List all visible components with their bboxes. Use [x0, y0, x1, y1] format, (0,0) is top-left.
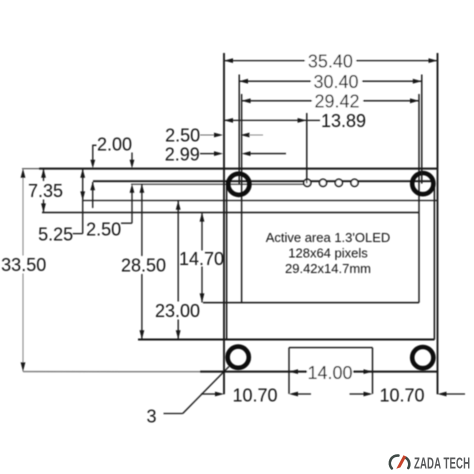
active area text	[266, 230, 391, 276]
active area rectangle	[42, 94, 419, 303]
dimension 5.25	[82, 169, 84, 234]
pin hole 2	[319, 179, 326, 186]
dimension 14.70	[201, 213, 203, 251]
inner frame line	[83, 200, 437, 202]
dimension 23.00	[177, 201, 179, 302]
svg-text:Active area 1.3'OLED: Active area 1.3'OLED	[266, 230, 391, 245]
svg-text:2.50: 2.50	[165, 126, 200, 146]
logo gauge icon	[390, 456, 409, 469]
dimension 28.50	[141, 184, 143, 256]
svg-text:ZADA TECH: ZADA TECH	[414, 454, 470, 472]
svg-text:14.00: 14.00	[307, 363, 352, 383]
svg-text:7.35: 7.35	[28, 181, 63, 201]
svg-text:33.50: 33.50	[1, 255, 46, 275]
svg-text:35.40: 35.40	[308, 51, 353, 71]
svg-text:23.00: 23.00	[155, 301, 200, 321]
mounting hole bottom-left	[228, 347, 249, 368]
mounting hole top-right	[412, 173, 433, 194]
svg-text:10.70: 10.70	[379, 385, 424, 405]
svg-text:2.50: 2.50	[86, 220, 121, 240]
bottom connector box	[289, 348, 373, 394]
svg-text:2.99: 2.99	[165, 144, 200, 164]
dimension 29.42	[242, 100, 419, 102]
2.00 lower arrow left (points up at glass top)	[90, 182, 95, 191]
glass display module rectangle	[93, 181, 435, 339]
pin hole 1	[304, 179, 311, 186]
pin hole 4	[351, 179, 358, 186]
dimension 13.89	[224, 119, 307, 121]
hole center extension right	[421, 75, 423, 184]
svg-text:13.89: 13.89	[321, 111, 366, 131]
svg-text:29.42x14.7mm: 29.42x14.7mm	[285, 261, 371, 276]
dimension 10.70 right	[350, 393, 365, 395]
pin centerline	[131, 183, 304, 185]
dimension 10.70 left	[201, 393, 215, 395]
svg-text:5.25: 5.25	[38, 224, 73, 244]
dimension 35.40	[224, 60, 438, 62]
board outline (PCB)	[22, 53, 438, 394]
svg-text:30.40: 30.40	[313, 72, 358, 92]
2.00 lower arrow right (points up at glass top)	[130, 184, 135, 193]
dimension 7.35	[43, 169, 45, 181]
logo needle	[396, 455, 406, 469]
mounting hole bottom-right	[412, 347, 433, 368]
dimension 33.50	[22, 169, 24, 256]
pin hole 3	[335, 179, 342, 186]
svg-text:10.70: 10.70	[232, 385, 277, 405]
mounting hole top-left	[228, 174, 249, 195]
svg-text:128x64 pixels: 128x64 pixels	[288, 246, 368, 261]
pin1 extension line	[306, 113, 308, 183]
svg-text:14.70: 14.70	[179, 249, 224, 269]
svg-text:2.00: 2.00	[97, 135, 132, 155]
dimension 2.50 left	[131, 193, 133, 224]
dimension 30.40	[239, 80, 422, 82]
svg-text:3: 3	[146, 407, 156, 427]
svg-text:29.42: 29.42	[314, 92, 359, 112]
hole center extension left	[238, 75, 240, 185]
svg-text:28.50: 28.50	[121, 256, 166, 276]
dimension 14.00	[307, 364, 353, 381]
ZADA TECH logo	[390, 454, 470, 472]
